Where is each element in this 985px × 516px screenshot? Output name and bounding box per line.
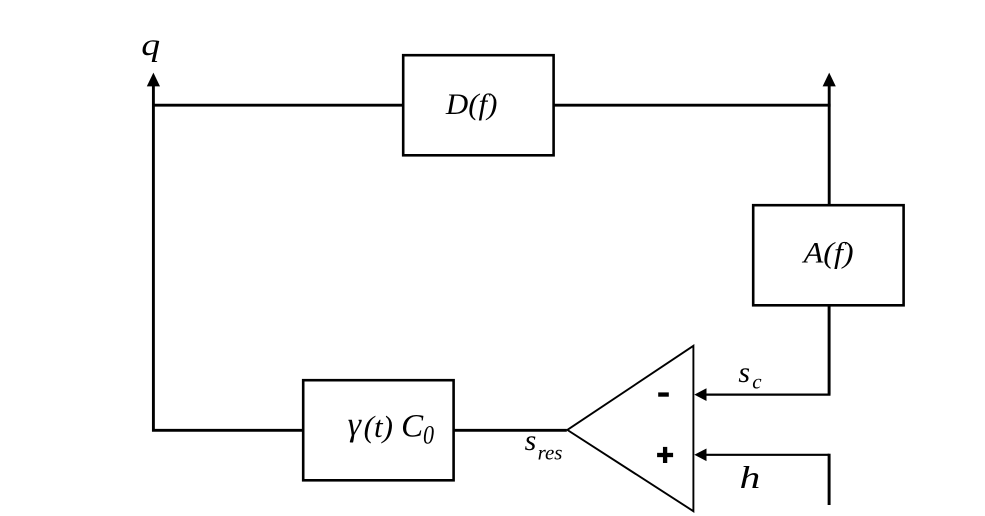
wire h horizontal into plus input: [706, 454, 830, 456]
svg-text:γ: γ: [348, 407, 363, 444]
svg-text:s: s: [738, 356, 750, 389]
svg-text:s: s: [525, 424, 537, 457]
wire A(f) bottom down to s_c elbow: [828, 305, 831, 394]
wire h vertical stub: [828, 454, 831, 505]
wire q to D(f) input: [153, 104, 403, 107]
arrowhead up-right: [823, 73, 836, 87]
wire s_c horizontal into minus input: [706, 394, 831, 396]
block D(f): [403, 55, 553, 155]
arrowhead up-left (q output): [147, 73, 160, 87]
wire right vertical (A(f) output up): [828, 79, 831, 205]
arrowhead h into plus: [694, 448, 706, 461]
plus sign horizontal bar: [657, 453, 673, 457]
summing comparator triangle: [567, 346, 693, 511]
svg-text:h: h: [740, 460, 761, 495]
svg-text:res: res: [538, 441, 563, 465]
svg-text:(t): (t): [364, 409, 393, 444]
minus sign: [658, 392, 669, 396]
block A(f): [753, 205, 903, 305]
svg-text:C: C: [401, 409, 424, 445]
wire feedback left: vertical + elbow to gamma box: [153, 79, 303, 430]
plus sign vertical bar: [663, 447, 667, 463]
wire gamma box output to summer apex: [454, 429, 567, 432]
svg-text:c: c: [752, 370, 762, 394]
block gamma(t) C0: [303, 380, 453, 480]
svg-text:0: 0: [423, 422, 434, 450]
arrowhead s_c into minus: [694, 388, 706, 401]
wire D(f) output to right vertical: [554, 104, 831, 107]
svg-text:q: q: [141, 27, 160, 62]
svg-text:D(f): D(f): [445, 88, 498, 121]
svg-text:A(f): A(f): [801, 236, 853, 269]
